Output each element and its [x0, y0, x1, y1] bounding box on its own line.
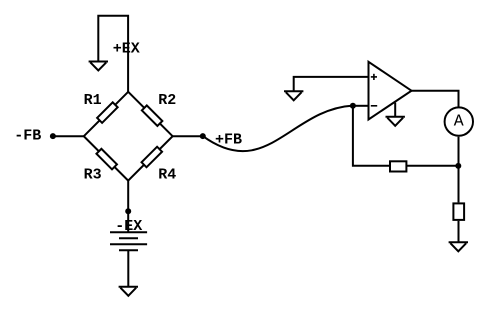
op-amp minus marking: [371, 105, 377, 107]
battery -EX supply: [110, 232, 147, 250]
op-amp plus marking: [371, 74, 377, 80]
svg-text:R2: R2: [158, 92, 176, 109]
svg-text:R4: R4: [158, 167, 176, 184]
node feedback junction: [455, 163, 461, 169]
svg-text:A: A: [454, 111, 464, 130]
wire: +FB lead: [173, 135, 203, 137]
op-amp U1: [369, 62, 412, 120]
resistor R4: [142, 147, 163, 168]
node below bridge: [125, 208, 131, 214]
svg-text:R1: R1: [84, 92, 102, 109]
wire: -FB lead: [53, 135, 84, 137]
ground G4 below battery: [119, 287, 138, 296]
wire: curved from +FB to op-amp inverting node: [203, 106, 353, 152]
svg-text:+EX: +EX: [113, 41, 140, 58]
wire: inverting input lead: [353, 105, 369, 107]
wire: inverting node down and right to feedback resistor: [353, 106, 459, 166]
wire: battery to ground: [127, 250, 129, 286]
wire: bridge bottom to battery: [127, 181, 129, 233]
resistor R2: [142, 105, 163, 126]
node op-amp inverting input junction: [350, 103, 356, 109]
ground G1 top-left: [89, 62, 108, 71]
ground G5 bottom-right: [449, 242, 468, 251]
wire: bridge diamond edges: [84, 92, 173, 181]
ground G3 below op-amp: [386, 117, 405, 126]
resistor (shunt to ground): [453, 203, 464, 220]
ground G2 at noninverting input: [284, 91, 303, 100]
node -FB terminal: [50, 133, 56, 139]
wire: op-amp power stub to ground: [394, 103, 396, 117]
wire: shunt resistor to ground: [458, 221, 460, 242]
wire: ammeter to feedback junction: [458, 137, 460, 166]
node +FB terminal: [200, 133, 206, 139]
resistor (feedback): [390, 161, 406, 171]
ammeter A: [445, 107, 473, 135]
svg-text:R3: R3: [84, 167, 102, 184]
resistor R3: [96, 149, 117, 170]
wire: junction down to shunt resistor: [458, 166, 460, 203]
svg-text:-FB: -FB: [14, 128, 41, 145]
wire: op-amp noninverting input to ground: [294, 77, 369, 91]
wire: +EX supply to bridge top: [98, 16, 128, 93]
wire: op-amp output to ammeter: [412, 91, 459, 107]
resistor R1: [97, 102, 118, 123]
